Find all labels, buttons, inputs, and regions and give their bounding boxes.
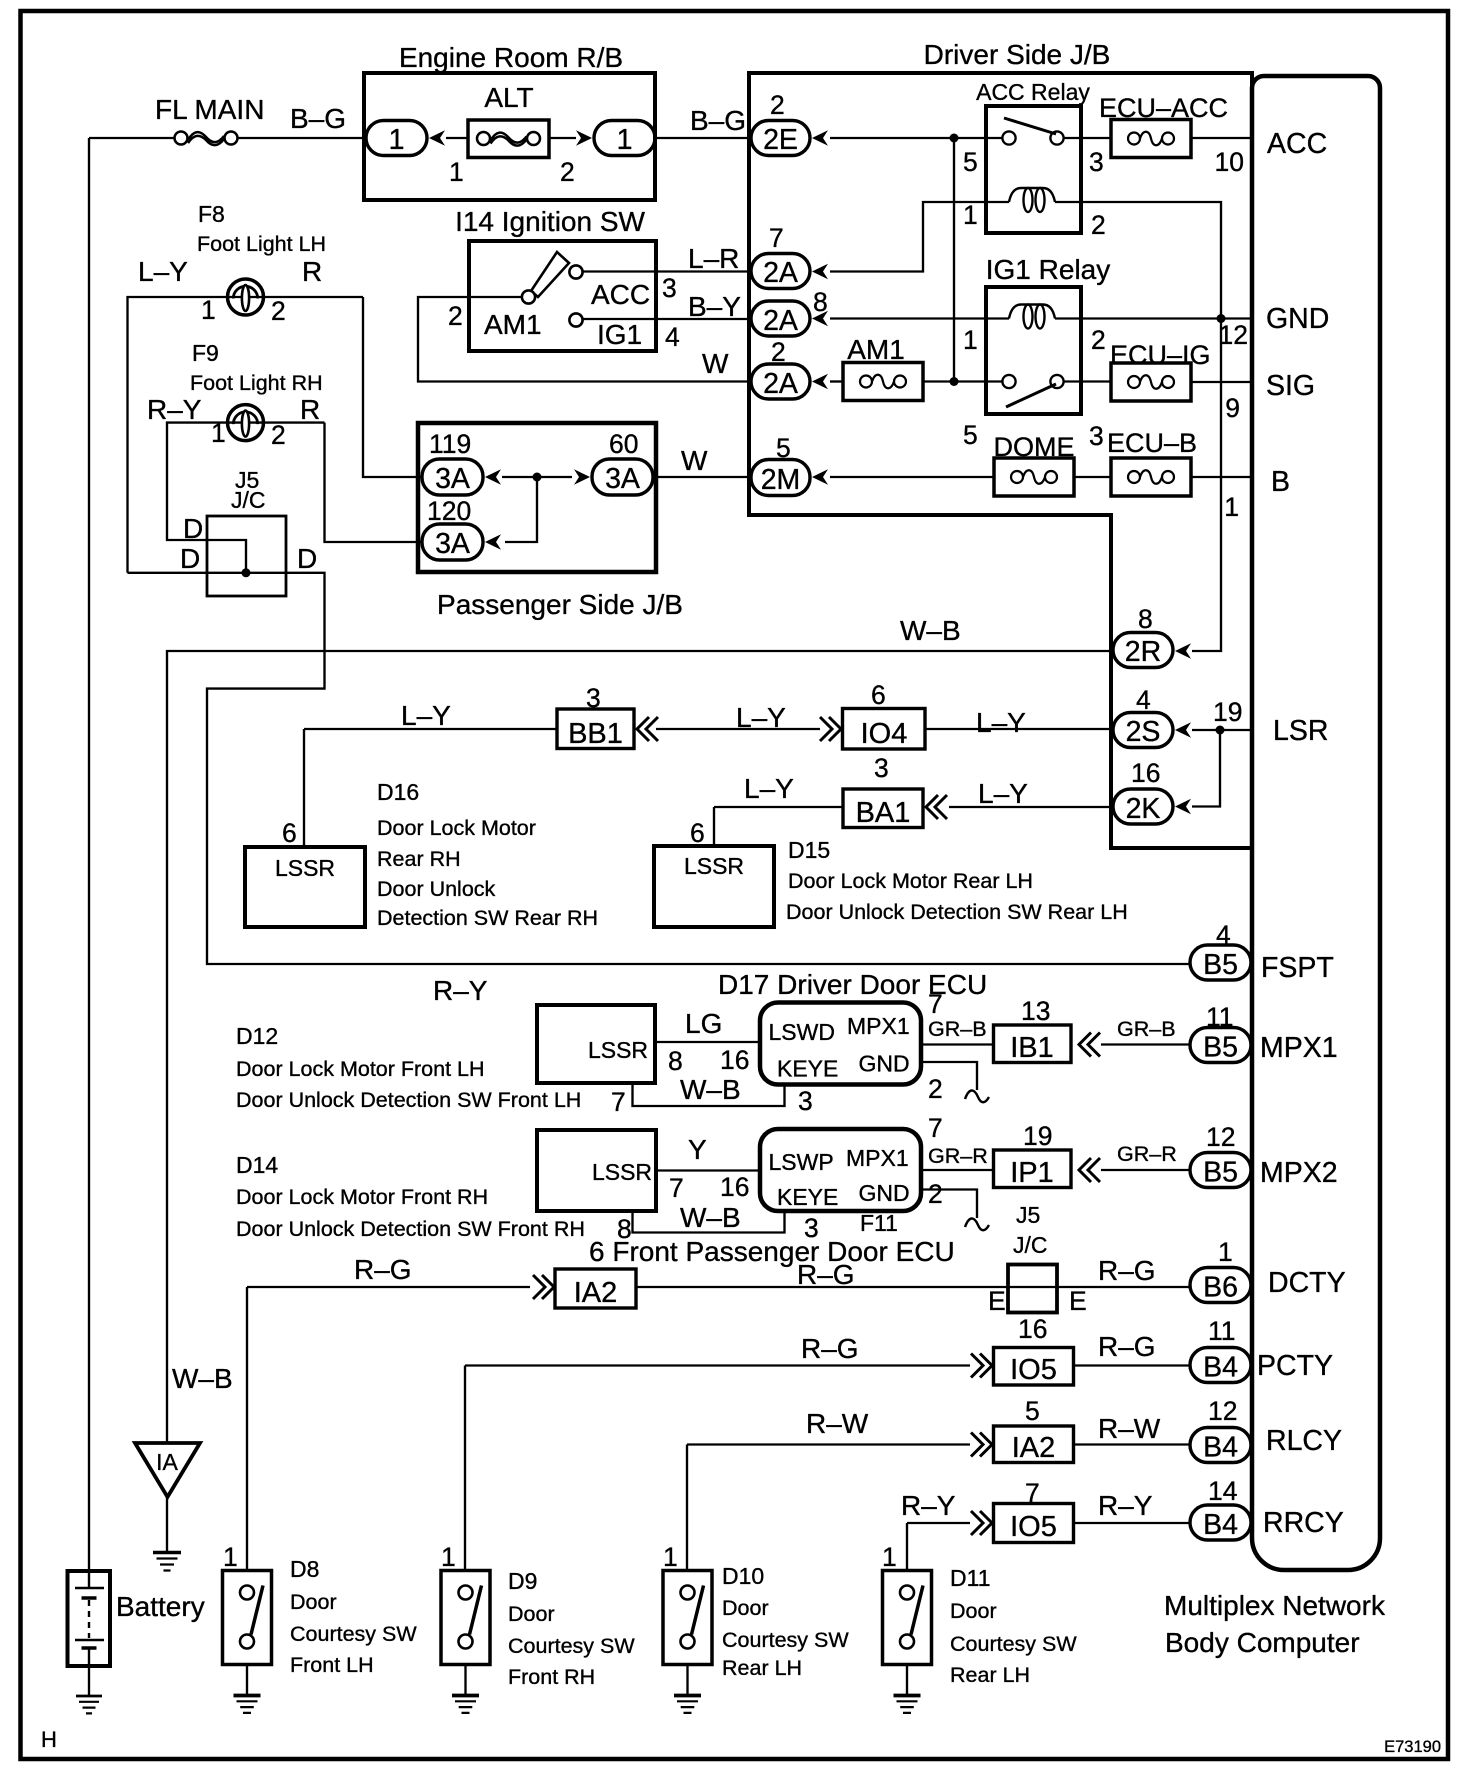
- connector B5 FSPT: [1190, 945, 1251, 980]
- wire ACC contact to ECU-ACC fuse: [1064, 137, 1111, 139]
- svg-text:5: 5: [963, 147, 978, 177]
- svg-text:119: 119: [429, 429, 471, 459]
- svg-text:IO5: IO5: [1010, 1511, 1057, 1543]
- svg-text:9: 9: [1225, 393, 1240, 423]
- svg-text:1: 1: [663, 1542, 678, 1572]
- svg-text:IO5: IO5: [1010, 1354, 1057, 1386]
- connector B4 RRCY: [1190, 1505, 1251, 1540]
- wire D9 drop: [464, 1366, 466, 1571]
- svg-text:Y: Y: [688, 1134, 707, 1165]
- svg-text:GND: GND: [1266, 303, 1329, 335]
- svg-text:R–G: R–G: [1098, 1255, 1156, 1286]
- svg-text:F8: F8: [198, 201, 225, 227]
- svg-text:2A: 2A: [763, 257, 798, 289]
- svg-text:1: 1: [617, 124, 633, 156]
- svg-text:D14: D14: [236, 1152, 278, 1178]
- connector B4 RLCY: [1190, 1428, 1251, 1463]
- connector B4 PCTY: [1190, 1348, 1251, 1383]
- svg-text:Door Unlock Detection SW Front: Door Unlock Detection SW Front LH: [236, 1088, 581, 1112]
- IG1 relay contacts: [1002, 375, 1015, 388]
- D10 ground wire: [686, 1665, 688, 1696]
- svg-text:DOME: DOME: [994, 432, 1075, 462]
- ground below D10: [674, 1696, 701, 1713]
- svg-text:Door Unlock Detection SW Front: Door Unlock Detection SW Front RH: [236, 1217, 585, 1241]
- body ground tilde D17: [965, 1090, 989, 1102]
- svg-text:RLCY: RLCY: [1266, 1425, 1342, 1457]
- svg-text:2A: 2A: [763, 368, 798, 400]
- svg-text:LSSR: LSSR: [684, 853, 744, 879]
- svg-text:L–Y: L–Y: [736, 702, 786, 733]
- svg-text:Rear LH: Rear LH: [950, 1663, 1030, 1687]
- svg-text:W: W: [681, 445, 708, 476]
- wire D11 drop: [906, 1523, 908, 1571]
- svg-text:120: 120: [427, 496, 471, 526]
- Passenger Side J/B box: [418, 423, 656, 572]
- svg-text:W–B: W–B: [680, 1202, 741, 1233]
- wire B-G from left trunk to Engine Room: [89, 137, 366, 139]
- svg-text:10: 10: [1215, 147, 1244, 177]
- fuse ECU-IG: [1111, 363, 1191, 401]
- junction center J5 J/C: [242, 568, 251, 577]
- connector IP1: [994, 1150, 1072, 1188]
- svg-text:GND: GND: [859, 1180, 910, 1206]
- ignition switch pivot and blade: [531, 252, 569, 297]
- svg-text:B5: B5: [1203, 1157, 1238, 1189]
- svg-text:LSSR: LSSR: [592, 1159, 652, 1185]
- svg-text:R–Y: R–Y: [901, 1490, 956, 1521]
- svg-text:2: 2: [1091, 325, 1106, 355]
- svg-text:AM1: AM1: [484, 309, 542, 340]
- arrowhead into connector 1 right: [576, 130, 592, 146]
- svg-text:1: 1: [223, 1542, 238, 1572]
- connector 2R: [1113, 633, 1173, 668]
- junction dot at ACC relay column top: [950, 134, 959, 143]
- svg-text:R–G: R–G: [1098, 1331, 1156, 1362]
- svg-text:5: 5: [776, 433, 791, 463]
- Front Passenger Door ECU box: [760, 1129, 921, 1211]
- svg-text:Door Unlock Detection SW Rear: Door Unlock Detection SW Rear LH: [786, 900, 1128, 924]
- svg-text:12: 12: [1219, 320, 1248, 350]
- svg-text:GND: GND: [859, 1051, 910, 1077]
- svg-text:19: 19: [1023, 1121, 1052, 1151]
- connector IB1: [994, 1025, 1072, 1063]
- svg-text:1: 1: [1218, 1237, 1233, 1267]
- svg-text:MPX1: MPX1: [846, 1145, 909, 1171]
- svg-text:R–Y: R–Y: [1098, 1490, 1153, 1521]
- svg-text:BA1: BA1: [856, 797, 911, 829]
- svg-text:E: E: [1069, 1286, 1087, 1316]
- svg-text:IA2: IA2: [574, 1277, 618, 1309]
- svg-text:DCTY: DCTY: [1268, 1267, 1346, 1299]
- svg-text:1: 1: [963, 200, 978, 230]
- wire fuse to ACC pin: [1191, 137, 1253, 139]
- svg-text:D8: D8: [290, 1556, 319, 1582]
- wire F8 right R down to 3A 119: [363, 297, 422, 477]
- svg-text:1: 1: [201, 295, 216, 325]
- connector 2K: [1113, 789, 1173, 824]
- svg-text:ECU–B: ECU–B: [1107, 428, 1197, 458]
- svg-text:GR–B: GR–B: [928, 1017, 987, 1041]
- svg-text:L–Y: L–Y: [976, 707, 1026, 738]
- svg-text:Front RH: Front RH: [508, 1665, 595, 1689]
- chevron into IA2 RLCY: [971, 1433, 992, 1457]
- wire R-G DCTY row: [247, 1286, 1190, 1288]
- svg-text:J/C: J/C: [1013, 1232, 1048, 1258]
- svg-text:B–G: B–G: [690, 105, 746, 136]
- svg-text:LSWP: LSWP: [769, 1149, 834, 1175]
- LSSR D16 box: [245, 847, 365, 927]
- svg-text:16: 16: [720, 1045, 749, 1075]
- svg-text:R–W: R–W: [806, 1408, 869, 1439]
- svg-text:L–Y: L–Y: [401, 700, 451, 731]
- svg-text:L–Y: L–Y: [138, 256, 188, 287]
- Driver Side J/B box: [749, 73, 1252, 848]
- connector IA2 RLCY: [994, 1426, 1074, 1463]
- connector B5 MPX2: [1190, 1153, 1251, 1188]
- svg-text:B4: B4: [1203, 1432, 1238, 1464]
- wire W-B D12 to ECU: [633, 1083, 785, 1106]
- wire LSR from edge to 2S: [1192, 729, 1253, 731]
- battery: [68, 1571, 111, 1666]
- svg-text:2: 2: [928, 1179, 943, 1209]
- wire IG1 pin3 to ECU-IG fuse: [1064, 380, 1111, 382]
- svg-text:W: W: [702, 348, 729, 379]
- svg-text:IO4: IO4: [861, 718, 908, 750]
- wire B-G to 2E: [655, 137, 751, 139]
- fuse DOME: [994, 458, 1074, 496]
- svg-text:H: H: [41, 1727, 57, 1752]
- connector IA triangle: [135, 1443, 200, 1497]
- wire between 3A connectors: [502, 477, 572, 542]
- svg-text:Door: Door: [950, 1599, 997, 1623]
- svg-text:B4: B4: [1203, 1509, 1238, 1541]
- chevron into IA2 DCTY: [533, 1275, 554, 1299]
- wire 2A8 to IG1 coil: [830, 317, 986, 319]
- connector 1 left: [366, 121, 427, 156]
- svg-text:6: 6: [282, 818, 297, 848]
- wire DOME to ECU-B: [1074, 476, 1111, 478]
- chevron into IB1: [1079, 1033, 1100, 1057]
- wire W-B from 2R to left trunk: [167, 651, 1113, 1443]
- fuse ECU-ACC: [1111, 120, 1191, 158]
- wire GR-R to B5: [1101, 1169, 1190, 1171]
- wire W-B D14 to ECU: [633, 1211, 785, 1233]
- svg-text:LG: LG: [685, 1008, 722, 1039]
- connector 1 right: [594, 121, 655, 156]
- svg-text:5: 5: [1025, 1396, 1040, 1426]
- svg-text:L–Y: L–Y: [978, 778, 1028, 809]
- door courtesy switch D11: [883, 1571, 932, 1665]
- svg-text:19: 19: [1213, 697, 1242, 727]
- connector 2S: [1113, 713, 1173, 748]
- ACC relay contacts: [1002, 131, 1015, 144]
- svg-text:FSPT: FSPT: [1261, 952, 1334, 984]
- D9 ground wire: [464, 1665, 466, 1696]
- connector 3A pin 119: [422, 459, 483, 495]
- arrowhead into 2A W: [812, 374, 828, 390]
- svg-text:R: R: [300, 394, 320, 425]
- svg-text:AM1: AM1: [847, 334, 905, 365]
- wire F9 left R-Y into J/C: [167, 423, 325, 573]
- svg-text:Foot Light RH: Foot Light RH: [190, 371, 323, 395]
- chevron into BB1: [637, 717, 658, 741]
- door courtesy switch D10: [663, 1571, 712, 1665]
- svg-text:7: 7: [769, 223, 784, 253]
- svg-text:PCTY: PCTY: [1257, 1350, 1333, 1382]
- connector IO4: [843, 709, 926, 750]
- svg-text:2S: 2S: [1126, 716, 1161, 748]
- svg-text:6: 6: [871, 680, 886, 710]
- svg-text:GR–B: GR–B: [1117, 1017, 1176, 1041]
- fusible link FL MAIN: [175, 132, 238, 146]
- svg-text:ACC Relay: ACC Relay: [976, 79, 1090, 105]
- wire 2AW to AM1 fuse: [830, 380, 842, 382]
- connector 2A pin 2 (W): [751, 364, 810, 399]
- connector IO5 RRCY: [994, 1504, 1074, 1543]
- svg-text:D: D: [297, 543, 317, 574]
- svg-text:Courtesy SW: Courtesy SW: [290, 1622, 417, 1646]
- svg-text:2R: 2R: [1125, 636, 1161, 668]
- svg-text:3A: 3A: [605, 463, 640, 495]
- svg-text:2: 2: [560, 157, 575, 187]
- wire MPX1 to IB1: [921, 1043, 994, 1045]
- svg-text:ALT: ALT: [484, 82, 533, 113]
- ground below battery: [76, 1696, 102, 1713]
- svg-text:7: 7: [669, 1173, 684, 1203]
- svg-text:W–B: W–B: [900, 615, 961, 646]
- arrowhead into 3A 120: [485, 534, 501, 550]
- svg-text:MPX1: MPX1: [847, 1013, 910, 1039]
- svg-text:W–B: W–B: [680, 1074, 741, 1105]
- svg-text:3A: 3A: [435, 463, 470, 495]
- svg-text:11: 11: [1206, 1002, 1234, 1032]
- ACC Relay box: [986, 106, 1081, 233]
- svg-text:D17 Driver Door ECU: D17 Driver Door ECU: [718, 969, 987, 1000]
- svg-text:Courtesy SW: Courtesy SW: [508, 1634, 635, 1658]
- svg-text:3: 3: [874, 753, 889, 783]
- svg-text:B5: B5: [1203, 1032, 1238, 1064]
- junction box J5 J/C: [207, 516, 286, 596]
- svg-text:8: 8: [1138, 604, 1153, 634]
- svg-text:2: 2: [448, 301, 463, 331]
- svg-text:D: D: [180, 543, 200, 574]
- svg-text:Courtesy SW: Courtesy SW: [722, 1628, 849, 1652]
- arrowhead into connector 1: [429, 130, 445, 146]
- ignition switch box I14: [469, 241, 656, 351]
- connector 2E: [751, 121, 810, 156]
- wire B-Y from IG1 contact to 2A: [583, 318, 751, 320]
- svg-text:B6: B6: [1203, 1272, 1238, 1304]
- svg-text:14: 14: [1208, 1476, 1237, 1506]
- wire D10 drop: [686, 1445, 688, 1571]
- svg-text:Door Lock Motor Rear LH: Door Lock Motor Rear LH: [788, 869, 1033, 893]
- svg-text:LSR: LSR: [1273, 715, 1328, 747]
- body ground tilde LSWP: [965, 1218, 989, 1230]
- Multiplex Network Body Computer box: [1252, 76, 1380, 1570]
- IA ground wire: [166, 1497, 168, 1552]
- chevron into IO5 PCTY: [971, 1354, 992, 1378]
- IG1 relay coil: [1009, 305, 1055, 329]
- svg-text:6: 6: [690, 818, 705, 848]
- svg-text:7: 7: [611, 1087, 626, 1117]
- door courtesy switch D9: [441, 1571, 490, 1665]
- svg-text:W–B: W–B: [172, 1363, 233, 1394]
- svg-text:2A: 2A: [763, 305, 798, 337]
- svg-text:IG1 Relay: IG1 Relay: [986, 254, 1111, 285]
- svg-text:E: E: [988, 1286, 1006, 1316]
- wire L-Y BA1 row: [714, 807, 1111, 846]
- LSSR D15 box: [654, 846, 774, 927]
- svg-text:LSWD: LSWD: [769, 1019, 835, 1045]
- svg-text:D11: D11: [950, 1565, 991, 1591]
- svg-text:R–G: R–G: [354, 1254, 412, 1285]
- svg-text:RRCY: RRCY: [1263, 1507, 1344, 1539]
- wire ACC relay coil pin1 to 2A7: [830, 202, 986, 272]
- svg-text:Courtesy SW: Courtesy SW: [950, 1632, 1077, 1656]
- svg-text:D12: D12: [236, 1023, 278, 1049]
- svg-text:R–W: R–W: [1098, 1413, 1161, 1444]
- svg-text:3A: 3A: [435, 528, 470, 560]
- svg-text:2M: 2M: [761, 464, 801, 496]
- svg-text:J/C: J/C: [231, 487, 266, 513]
- svg-text:L–R: L–R: [688, 243, 739, 274]
- svg-text:2: 2: [1091, 210, 1106, 240]
- svg-text:LSSR: LSSR: [275, 855, 335, 881]
- wire 2E to ACC relay pin 5: [830, 137, 1002, 139]
- svg-text:R–G: R–G: [797, 1259, 855, 1290]
- svg-text:Door: Door: [722, 1596, 769, 1620]
- svg-text:2: 2: [928, 1074, 943, 1104]
- svg-text:R–Y: R–Y: [147, 394, 202, 425]
- junction dot at IG1 pin 5: [950, 377, 959, 386]
- svg-text:16: 16: [720, 1172, 749, 1202]
- connector 2M: [751, 460, 810, 496]
- svg-text:Driver Side J/B: Driver Side J/B: [924, 39, 1111, 70]
- svg-text:Passenger Side J/B: Passenger Side J/B: [437, 589, 683, 620]
- arrowhead into 2S: [1175, 722, 1191, 738]
- svg-text:KEYE: KEYE: [777, 1056, 838, 1082]
- wire from BB1 down to LSSR D16: [303, 729, 305, 847]
- svg-text:BB1: BB1: [568, 718, 623, 750]
- svg-text:2: 2: [271, 420, 286, 450]
- svg-text:Body Computer: Body Computer: [1165, 1627, 1360, 1658]
- connector IA2 DCTY: [555, 1269, 636, 1308]
- svg-text:B5: B5: [1203, 949, 1238, 981]
- svg-text:Door: Door: [508, 1602, 555, 1626]
- svg-text:D15: D15: [788, 837, 830, 863]
- svg-text:Battery: Battery: [116, 1591, 205, 1622]
- arrowhead into 2A 8: [812, 311, 828, 327]
- svg-text:Engine Room R/B: Engine Room R/B: [399, 42, 623, 73]
- svg-text:Door Lock Motor Front LH: Door Lock Motor Front LH: [236, 1057, 485, 1081]
- battery feed wire: [88, 138, 90, 1571]
- fuse AM1: [843, 363, 923, 401]
- svg-text:2: 2: [770, 90, 785, 120]
- svg-text:IP1: IP1: [1010, 1157, 1054, 1189]
- svg-text:Front LH: Front LH: [290, 1653, 374, 1677]
- svg-text:Detection SW Rear RH: Detection SW Rear RH: [377, 906, 598, 930]
- chevron into IO4: [820, 717, 841, 741]
- arrowhead into 3A 60: [574, 469, 590, 485]
- svg-text:I14 Ignition SW: I14 Ignition SW: [455, 206, 645, 237]
- svg-text:Rear RH: Rear RH: [377, 847, 461, 871]
- svg-text:6 Front Passenger Door ECU: 6 Front Passenger Door ECU: [589, 1236, 955, 1267]
- IG1 relay blade: [1006, 384, 1056, 407]
- svg-text:MPX2: MPX2: [1260, 1157, 1338, 1189]
- svg-text:Foot Light LH: Foot Light LH: [197, 232, 326, 256]
- connector 3A pin 60: [592, 459, 653, 495]
- wire R-G PCTY row: [465, 1364, 1190, 1366]
- svg-text:R–G: R–G: [801, 1333, 859, 1364]
- battery ground wire: [88, 1666, 90, 1696]
- wire 2M to DOME fuse: [830, 476, 994, 478]
- wire ECU-B to B pin: [1191, 476, 1253, 478]
- svg-text:IA2: IA2: [1012, 1432, 1056, 1464]
- arrowhead into 3A 119: [485, 469, 501, 485]
- chevron into IO5 RRCY: [971, 1511, 992, 1535]
- wire F9 right R down to 3A 120: [325, 423, 423, 542]
- svg-text:ECU–IG: ECU–IG: [1110, 340, 1211, 370]
- D11 ground wire: [906, 1665, 908, 1696]
- ground below IA: [153, 1553, 181, 1571]
- svg-text:LSSR: LSSR: [588, 1037, 648, 1063]
- svg-text:GR–R: GR–R: [1117, 1142, 1177, 1166]
- junction box J/C right: [1008, 1265, 1057, 1313]
- svg-text:ACC: ACC: [591, 279, 650, 310]
- svg-text:4: 4: [665, 322, 680, 352]
- svg-text:16: 16: [1131, 758, 1160, 788]
- wire GND D17 to body ground: [921, 1062, 977, 1090]
- svg-text:R: R: [302, 256, 322, 287]
- ground below D9: [452, 1696, 479, 1713]
- svg-text:ECU–ACC: ECU–ACC: [1099, 93, 1228, 123]
- wire Y: [656, 1169, 760, 1171]
- svg-text:4: 4: [1216, 920, 1231, 950]
- wire ECU-IG to SIG: [1191, 381, 1253, 383]
- svg-text:3: 3: [662, 273, 677, 303]
- IG1 Relay box: [986, 287, 1081, 414]
- wire AM1 to IG1 pin5: [924, 380, 1002, 382]
- wire R-W RLCY row: [687, 1443, 1190, 1445]
- svg-text:1: 1: [449, 157, 464, 187]
- svg-text:D10: D10: [722, 1563, 764, 1589]
- svg-text:SIG: SIG: [1266, 370, 1315, 402]
- svg-text:Door: Door: [290, 1590, 337, 1614]
- svg-text:Door Lock Motor Front RH: Door Lock Motor Front RH: [236, 1185, 488, 1209]
- svg-text:2: 2: [271, 296, 286, 326]
- D8 ground wire: [246, 1665, 248, 1696]
- svg-text:R–Y: R–Y: [433, 975, 488, 1006]
- svg-text:1: 1: [441, 1542, 456, 1572]
- lamp F9 Foot Light RH: [228, 405, 264, 441]
- svg-text:1: 1: [963, 325, 978, 355]
- arrowhead into 2M: [812, 469, 828, 485]
- lamp F8 Foot Light LH: [228, 279, 264, 315]
- connector B5 MPX1: [1190, 1028, 1251, 1063]
- svg-text:L–Y: L–Y: [744, 773, 794, 804]
- svg-text:4: 4: [1136, 685, 1151, 715]
- svg-text:ACC: ACC: [1267, 128, 1327, 160]
- wire arrow to ALT fuse: [446, 137, 576, 139]
- Engine Room R/B box: [364, 73, 655, 200]
- LSSR D12 box: [537, 1005, 655, 1083]
- wire GND LSWP to body ground: [921, 1190, 977, 1219]
- fuse ECU-B: [1111, 458, 1191, 496]
- wire GR-B to B5: [1101, 1043, 1190, 1045]
- wire LSR drop to 2K: [1192, 730, 1220, 807]
- chevron into IP1: [1079, 1158, 1100, 1182]
- svg-text:3: 3: [1089, 147, 1104, 177]
